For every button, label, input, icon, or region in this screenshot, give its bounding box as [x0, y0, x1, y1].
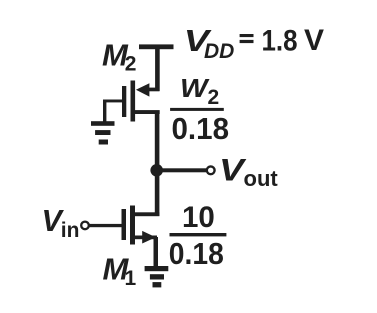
- transistor M1 (NMOS) gate bar: [122, 209, 127, 240]
- M2 source arrow (points into channel): [136, 83, 150, 96]
- M2 source lead: [146, 88, 160, 92]
- svg-text:DD: DD: [204, 40, 234, 63]
- svg-text:in: in: [61, 219, 80, 242]
- svg-text:0.18: 0.18: [169, 236, 224, 271]
- transistor M1 channel bar: [130, 206, 135, 245]
- svg-text:out: out: [244, 166, 279, 191]
- svg-text:V: V: [304, 24, 324, 57]
- M2 gate lead wire: [103, 100, 123, 103]
- ground symbol (M1 source): [145, 266, 169, 287]
- svg-text:2: 2: [125, 52, 137, 75]
- svg-text:1: 1: [125, 267, 137, 290]
- output terminal open circle: [207, 166, 215, 174]
- label 10/0.18 ratio: [169, 201, 227, 271]
- input terminal open circle: [81, 222, 89, 230]
- wire input terminal to M1 gate: [89, 224, 122, 227]
- label M2: [102, 38, 136, 76]
- wire M1 source down to ground: [154, 237, 159, 267]
- wire junction to output terminal: [157, 168, 207, 172]
- wire M2 drain down to output node: [155, 112, 160, 172]
- transistor M2 channel bar: [131, 81, 136, 122]
- M1 source lead: [135, 236, 157, 240]
- svg-text:0.18: 0.18: [172, 111, 230, 146]
- ground symbol (M2 gate): [91, 121, 115, 144]
- node: output junction dot: [150, 164, 163, 177]
- wire VDD rail to M2 source: [155, 47, 160, 91]
- label VDD = 1.8 V: [184, 24, 324, 63]
- svg-text:10: 10: [182, 201, 215, 234]
- svg-text:1.8: 1.8: [262, 24, 298, 57]
- label Vin: [42, 204, 80, 242]
- wire gate lead down to ground: [103, 100, 106, 123]
- transistor M2 (PMOS) gate bar: [122, 86, 126, 117]
- M2 drain lead: [135, 110, 160, 114]
- wire output node down to M1 drain: [155, 170, 160, 216]
- label M1: [103, 251, 137, 290]
- VDD supply rail bar: [139, 44, 174, 49]
- svg-text:2: 2: [208, 86, 220, 109]
- label W2/0.18 ratio: [170, 73, 229, 145]
- M1 drain lead: [135, 212, 159, 216]
- svg-text:W: W: [180, 73, 211, 102]
- M1 source arrow (points away from channel): [142, 231, 156, 244]
- label Vout: [219, 153, 278, 191]
